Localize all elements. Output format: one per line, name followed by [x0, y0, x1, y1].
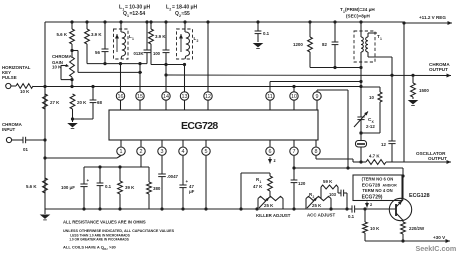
svg-text:8: 8	[315, 149, 318, 155]
svg-text:ECG729): ECG729)	[362, 195, 383, 201]
svg-text:12: 12	[381, 142, 386, 147]
svg-text:>30: >30	[109, 244, 117, 249]
svg-text:+11.2 V REG: +11.2 V REG	[419, 15, 446, 20]
svg-text:= 18-40 μH: = 18-40 μH	[172, 5, 198, 11]
svg-text:(PRIM)=24 μH: (PRIM)=24 μH	[345, 7, 375, 12]
svg-text:DU: DU	[104, 247, 108, 251]
svg-text:= 10-30 μH: = 10-30 μH	[125, 5, 151, 11]
svg-text:10: 10	[291, 94, 297, 100]
svg-text:5: 5	[205, 149, 208, 155]
svg-text:1: 1	[120, 149, 123, 155]
svg-text:25 K: 25 K	[264, 203, 274, 208]
svg-text:10 K: 10 K	[370, 226, 380, 231]
svg-text:10: 10	[369, 95, 374, 100]
svg-text:3.9 K: 3.9 K	[155, 34, 166, 39]
svg-text:5.6 K: 5.6 K	[57, 32, 68, 37]
svg-text:2: 2	[313, 195, 315, 199]
svg-text:013K: 013K	[134, 51, 144, 56]
svg-text:82: 82	[322, 42, 327, 47]
svg-text:0.1: 0.1	[263, 31, 270, 36]
svg-text:380: 380	[153, 186, 161, 191]
svg-text:6: 6	[269, 149, 272, 155]
svg-text:7: 7	[293, 149, 296, 155]
svg-text:120: 120	[298, 181, 306, 186]
svg-text:14: 14	[163, 94, 169, 100]
svg-text:11: 11	[267, 94, 273, 100]
svg-text:3.9 K: 3.9 K	[91, 32, 102, 37]
svg-text:12: 12	[205, 94, 211, 100]
svg-text:47 K: 47 K	[253, 184, 263, 189]
svg-text:.0047: .0047	[167, 174, 179, 179]
svg-text:KILLER ADJUST: KILLER ADJUST	[256, 213, 291, 218]
svg-text:(SEC)=8μH: (SEC)=8μH	[346, 14, 371, 19]
svg-text:2: 2	[169, 8, 171, 12]
svg-text:01: 01	[23, 147, 28, 152]
svg-text:ECG128: ECG128	[409, 193, 430, 199]
svg-text:10 K: 10 K	[52, 65, 62, 70]
svg-text:3: 3	[161, 149, 164, 155]
svg-text:CHROMA: CHROMA	[52, 54, 73, 59]
svg-text:(TERM NO 6 ON: (TERM NO 6 ON	[362, 177, 394, 182]
svg-text:PULSE: PULSE	[2, 75, 17, 80]
svg-text:15: 15	[137, 94, 143, 100]
svg-text:1: 1	[132, 37, 134, 41]
svg-text:16: 16	[118, 94, 124, 100]
svg-text:1.0 OR GREATER ARE IN PICOFARA: 1.0 OR GREATER ARE IN PICOFARADS	[69, 238, 129, 242]
svg-text:TERM NO 4 ON: TERM NO 4 ON	[362, 188, 392, 193]
svg-text:+: +	[87, 178, 90, 183]
svg-text:25 K: 25 K	[312, 203, 322, 208]
svg-text:ALL RESISTANCE VALUES ARE IN O: ALL RESISTANCE VALUES ARE IN OHMS	[63, 220, 146, 225]
svg-text:UNLESS OTHERWISE INDICATED, AL: UNLESS OTHERWISE INDICATED, ALL CAPACITA…	[63, 229, 175, 233]
svg-text:1: 1	[380, 37, 382, 41]
svg-text:220/2W: 220/2W	[409, 226, 425, 231]
svg-text:OUTPUT: OUTPUT	[428, 156, 447, 161]
svg-text:1200: 1200	[293, 42, 303, 47]
svg-text:INPUT: INPUT	[2, 127, 15, 132]
svg-text:4: 4	[182, 149, 185, 155]
svg-text:≈55: ≈55	[182, 11, 191, 17]
svg-text:ECG728: ECG728	[181, 120, 218, 132]
svg-text:39 K: 39 K	[125, 185, 135, 190]
svg-text:AND/OR: AND/OR	[383, 184, 398, 188]
svg-text:10 K: 10 K	[20, 89, 30, 94]
svg-text:0.1: 0.1	[105, 184, 112, 189]
svg-text:OUTPUT: OUTPUT	[429, 67, 448, 72]
svg-text:100: 100	[153, 51, 161, 56]
svg-text:μF: μF	[189, 189, 195, 194]
svg-text:20 K: 20 K	[77, 100, 87, 105]
svg-text:9: 9	[316, 94, 319, 100]
svg-text:ACC ADJUST: ACC ADJUST	[307, 213, 335, 218]
svg-text:ALL COILS HAVE A Q: ALL COILS HAVE A Q	[63, 244, 104, 249]
svg-text:68: 68	[97, 100, 102, 105]
svg-text:+30 V: +30 V	[433, 235, 446, 240]
svg-text:2: 2	[197, 39, 199, 43]
svg-text:100 μF: 100 μF	[61, 185, 75, 190]
svg-text:27 K: 27 K	[50, 100, 60, 105]
svg-text:0.1: 0.1	[348, 214, 355, 219]
svg-text:56: 56	[95, 50, 100, 55]
svg-text:13: 13	[182, 94, 188, 100]
svg-text:59 K: 59 K	[323, 179, 333, 184]
svg-text:=12-54: =12-54	[130, 11, 146, 17]
svg-text:2: 2	[140, 149, 143, 155]
svg-text:2-12: 2-12	[366, 124, 375, 129]
svg-text:SeekIC.com: SeekIC.com	[416, 244, 457, 253]
svg-text:5.6 K: 5.6 K	[26, 184, 37, 189]
svg-text:1500: 1500	[419, 88, 429, 93]
svg-text:103: 103	[329, 192, 337, 197]
svg-text:4.7 K: 4.7 K	[369, 154, 380, 159]
